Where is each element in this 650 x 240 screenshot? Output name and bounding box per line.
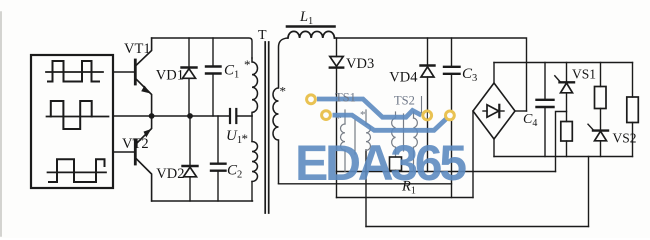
svg-text:EDA365: EDA365 bbox=[295, 135, 467, 191]
wire: VS1 junction to feedback bbox=[556, 112, 567, 172]
waveform 1 trace bbox=[48, 61, 99, 82]
wire: primary bottom to rail bbox=[251, 182, 253, 202]
lower mid rail bbox=[337, 197, 474, 199]
svg-text:C2: C2 bbox=[227, 163, 242, 181]
wire: bridge top to plus rail bbox=[493, 63, 495, 84]
bottom return rail bbox=[366, 226, 589, 228]
diode VD4 bbox=[421, 38, 435, 172]
watermark trace 1 bbox=[317, 99, 422, 117]
svg-text:U1: U1 bbox=[226, 128, 242, 146]
top rail right section bbox=[334, 38, 526, 111]
svg-text:C3: C3 bbox=[462, 66, 477, 84]
diode VD3 bbox=[330, 38, 343, 198]
capacitor C1 bbox=[206, 38, 221, 116]
diode VD1 bbox=[182, 38, 197, 116]
transformer T secondary winding bbox=[273, 38, 288, 184]
node: VD junction mid rail bbox=[187, 113, 193, 119]
bottom rail left section bbox=[152, 200, 253, 202]
capacitor C3 bbox=[444, 38, 460, 198]
waveform generator box bbox=[31, 55, 113, 188]
bridge rectifier bbox=[473, 83, 515, 139]
waveform 3 trace bbox=[49, 159, 105, 182]
wire: TS1 right leg down bbox=[365, 150, 367, 227]
waveform 2 trace bbox=[51, 101, 92, 129]
transformer T primary lower winding bbox=[252, 142, 258, 182]
inductor L1 bbox=[288, 31, 334, 38]
svg-text:*: * bbox=[244, 57, 251, 72]
wire: box to mid rail / U1 bbox=[113, 115, 230, 117]
capacitor U1 bbox=[230, 109, 252, 123]
svg-text:L1: L1 bbox=[299, 9, 313, 27]
watermark pad 4 bbox=[444, 110, 456, 122]
capacitor C2 bbox=[211, 116, 226, 201]
minus rail right section bbox=[494, 156, 633, 158]
wire: box to VT1 base bbox=[113, 71, 134, 73]
top rail left section bbox=[152, 38, 252, 58]
svg-text:VD2: VD2 bbox=[156, 166, 184, 182]
watermark pad 3 bbox=[421, 110, 433, 122]
capacitor C4 bbox=[537, 63, 554, 157]
thyristor VS1 bbox=[555, 63, 574, 122]
waveform 2 axis bbox=[47, 116, 109, 118]
svg-text:T: T bbox=[258, 28, 267, 43]
transformer T primary upper winding bbox=[252, 58, 258, 116]
resistor R3 (right) bbox=[627, 63, 639, 157]
transistor VT1 bbox=[135, 38, 151, 116]
transistor VT2 bbox=[135, 116, 151, 201]
resistor below VS1 bbox=[561, 122, 573, 157]
transformer T primary mid tap bbox=[251, 116, 253, 142]
watermark pad 2 bbox=[320, 109, 332, 121]
svg-text:C4: C4 bbox=[523, 112, 537, 129]
inductor L1 core bar bbox=[287, 25, 335, 28]
svg-text:VT2: VT2 bbox=[122, 136, 149, 152]
watermark pad 1 bbox=[305, 93, 317, 105]
transformer T core bbox=[264, 42, 266, 213]
wire: box to VT2 base bbox=[113, 151, 134, 153]
svg-text:VD4: VD4 bbox=[389, 70, 418, 86]
waveform 3 axis bbox=[48, 171, 107, 173]
current transformer TS1 bbox=[341, 110, 371, 172]
feedback rail bbox=[337, 171, 556, 173]
watermark trace 2 bbox=[333, 115, 450, 130]
diode VD2 bbox=[183, 116, 198, 201]
thyristor VS2 bbox=[588, 124, 608, 156]
svg-text:C1: C1 bbox=[224, 63, 239, 81]
resistor R2 (middle) bbox=[595, 63, 607, 131]
svg-text:TS1: TS1 bbox=[335, 91, 356, 105]
scan edge left bbox=[0, 12, 2, 236]
node: VT1 emitter junction bbox=[149, 113, 155, 119]
secondary lower rail bbox=[279, 183, 452, 185]
svg-text:VD1: VD1 bbox=[156, 68, 184, 84]
plus rail right section bbox=[494, 62, 633, 64]
svg-text:*: * bbox=[242, 131, 249, 146]
wire: output down right bbox=[588, 157, 590, 227]
wire: TS2 aux stub bbox=[421, 96, 423, 113]
svg-text:VD3: VD3 bbox=[346, 56, 374, 72]
svg-text:VT1: VT1 bbox=[124, 41, 151, 57]
wire: bridge bottom bbox=[493, 139, 495, 157]
svg-text:TS2: TS2 bbox=[394, 94, 415, 108]
resistor R1 bbox=[390, 157, 402, 172]
current transformer TS2 bbox=[392, 112, 418, 172]
wire: bridge left down bbox=[472, 111, 474, 198]
svg-text:*: * bbox=[280, 84, 287, 99]
wire: bridge right stub bbox=[515, 110, 527, 112]
waveform 1 axis bbox=[46, 71, 103, 73]
svg-text:VS1: VS1 bbox=[572, 67, 596, 82]
